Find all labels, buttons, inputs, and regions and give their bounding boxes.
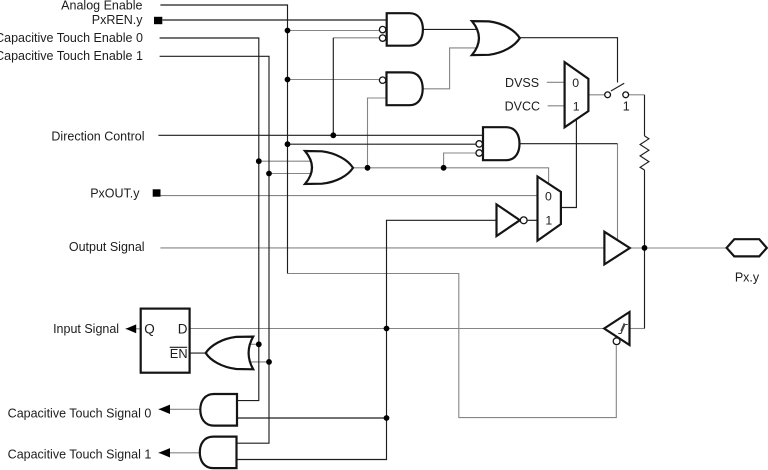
- svg-text:PxREN.y: PxREN.y: [92, 13, 143, 27]
- svg-text:EN: EN: [170, 346, 188, 361]
- svg-text:0: 0: [572, 76, 579, 90]
- svg-text:Input Signal: Input Signal: [53, 322, 119, 336]
- svg-text:Analog Enable: Analog Enable: [61, 0, 142, 12]
- svg-text:Capacitive Touch Enable 1: Capacitive Touch Enable 1: [0, 49, 143, 63]
- svg-text:PxOUT.y: PxOUT.y: [90, 186, 140, 200]
- svg-text:0: 0: [545, 190, 552, 204]
- svg-text:1: 1: [573, 100, 580, 114]
- svg-text:DVSS: DVSS: [505, 76, 539, 90]
- svg-text:1: 1: [545, 213, 552, 227]
- svg-text:Direction Control: Direction Control: [51, 130, 144, 144]
- svg-text:Px.y: Px.y: [735, 270, 760, 284]
- svg-text:D: D: [178, 321, 188, 336]
- svg-text:Q: Q: [144, 321, 155, 336]
- svg-text:DVCC: DVCC: [505, 99, 540, 113]
- svg-text:Capacitive Touch Signal 0: Capacitive Touch Signal 0: [8, 407, 152, 421]
- svg-text:Capacitive Touch Signal 1: Capacitive Touch Signal 1: [8, 448, 152, 462]
- svg-text:Capacitive Touch Enable 0: Capacitive Touch Enable 0: [0, 31, 143, 45]
- svg-text:1: 1: [623, 100, 630, 114]
- svg-text:Output Signal: Output Signal: [69, 240, 145, 254]
